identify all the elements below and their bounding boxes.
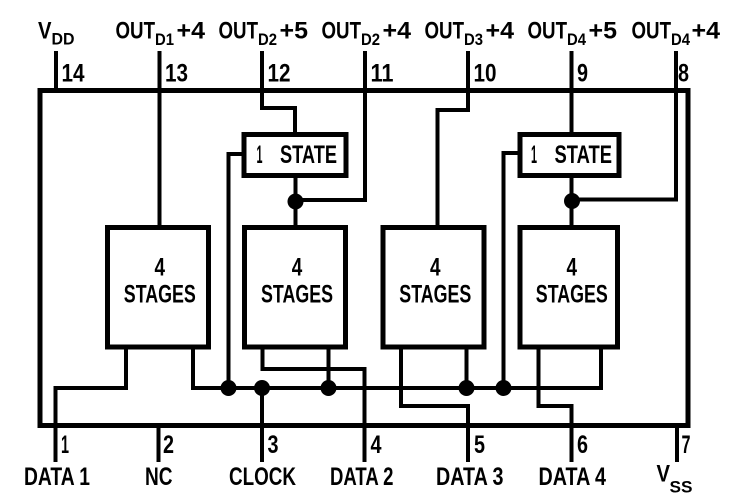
wire pin 7 VSS stub	[675, 425, 679, 462]
node A junction dot	[288, 194, 304, 210]
svg-text:+4: +4	[486, 18, 515, 45]
junction dot clock rail / state2 input	[496, 380, 512, 396]
svg-text:DATA 2: DATA 2	[330, 463, 394, 491]
svg-text:3: 3	[268, 431, 279, 459]
svg-text:7: 7	[682, 431, 691, 459]
label VDD	[38, 18, 75, 49]
svg-text:4: 4	[371, 431, 382, 459]
svg-text:D2: D2	[361, 30, 380, 49]
wire 1 STATE box 1 output to 4 STAGES box 2	[294, 176, 298, 228]
wire box 3 clock pin	[465, 347, 469, 388]
svg-text:CLOCK: CLOCK	[229, 463, 296, 491]
wire pin 9 OUTD4+5 to 1 STATE box 2	[570, 51, 574, 136]
junction dot clock rail / pin 3	[254, 380, 270, 396]
block B3: 4 STAGES box 3	[383, 228, 484, 348]
wire pin 10 OUTD3+4 jog to 4 STAGES box 3	[438, 51, 469, 228]
junction dot clock rail / box 2	[321, 380, 337, 396]
svg-text:11: 11	[371, 60, 394, 88]
wire pin 11 OUTD2+4 to node A	[296, 51, 366, 200]
svg-text:1: 1	[531, 141, 537, 169]
svg-text:DATA 4: DATA 4	[539, 463, 607, 491]
label OUT D2 +5	[219, 18, 309, 50]
junction dot clock rail / state1 input	[221, 380, 237, 396]
block B4: 4 STAGES box 4	[520, 228, 618, 348]
svg-text:+4: +4	[177, 18, 206, 45]
svg-text:OUT: OUT	[116, 18, 156, 45]
svg-text:8: 8	[678, 60, 689, 88]
svg-text:5: 5	[474, 431, 485, 459]
svg-text:10: 10	[474, 60, 497, 88]
svg-text:+4: +4	[383, 18, 412, 45]
label OUT D2 +4	[322, 18, 412, 50]
svg-text:STATE: STATE	[555, 141, 613, 169]
svg-text:OUT: OUT	[632, 18, 672, 45]
wire pin 3 CLOCK stub	[260, 388, 264, 462]
svg-text:OUT: OUT	[322, 18, 362, 45]
wire pin 8 OUTD4+4 to node B	[572, 51, 676, 200]
svg-text:STAGES: STAGES	[261, 281, 333, 309]
svg-text:DD: DD	[52, 30, 75, 49]
svg-text:D3: D3	[464, 30, 483, 49]
svg-text:6: 6	[577, 431, 588, 459]
svg-text:4: 4	[567, 254, 578, 282]
svg-text:STAGES: STAGES	[124, 281, 196, 309]
op box U2: 1 STATE box 2	[520, 135, 619, 176]
svg-text:4: 4	[155, 254, 166, 282]
wire clock rail from box1 clock pin to box4 clock pin	[193, 347, 601, 388]
svg-text:SS: SS	[670, 478, 693, 497]
svg-text:DATA 3: DATA 3	[436, 463, 504, 491]
svg-text:+5: +5	[589, 18, 618, 45]
label OUT D4 +5	[528, 18, 618, 50]
svg-text:NC: NC	[145, 463, 173, 491]
svg-text:STAGES: STAGES	[536, 281, 608, 309]
svg-text:D2: D2	[258, 30, 277, 49]
svg-text:1: 1	[257, 141, 263, 169]
wire box 2 data input to pin 4 DATA 2	[263, 347, 365, 462]
svg-text:D4: D4	[567, 30, 586, 49]
svg-text:STAGES: STAGES	[399, 281, 471, 309]
svg-text:12: 12	[268, 60, 291, 88]
wire box 1 data input to pin 1 DATA 1	[56, 347, 127, 462]
junction dot clock rail / box 3	[459, 380, 475, 396]
svg-text:4: 4	[292, 254, 303, 282]
svg-text:D4: D4	[671, 30, 690, 49]
wire 1 STATE box 1 left input to clock rail	[229, 154, 246, 388]
wire 1 STATE box 2 left input to clock rail	[504, 153, 521, 388]
label OUT D3 +4	[425, 18, 515, 50]
svg-text:V: V	[657, 461, 671, 488]
wire box 3 data input to pin 5 DATA 3	[401, 347, 468, 462]
wire box 4 data input to pin 6 DATA 4	[539, 347, 572, 462]
node B junction dot	[564, 193, 580, 209]
svg-text:1: 1	[61, 431, 69, 459]
svg-text:14: 14	[62, 60, 85, 88]
svg-text:+4: +4	[692, 18, 721, 45]
wire pin 14 VDD stub	[54, 51, 58, 93]
label VSS	[657, 461, 693, 497]
svg-text:OUT: OUT	[425, 18, 465, 45]
svg-text:DATA 1: DATA 1	[24, 463, 90, 491]
svg-text:OUT: OUT	[528, 18, 568, 45]
svg-text:9: 9	[577, 60, 588, 88]
svg-text:STATE: STATE	[280, 141, 337, 169]
svg-text:13: 13	[165, 60, 188, 88]
wire pin 2 NC stub	[157, 425, 161, 462]
wire pin 13 OUTD1+4 to 4 STAGES box 1	[158, 51, 162, 228]
svg-text:V: V	[38, 18, 52, 45]
block B1: 4 STAGES box 1	[108, 228, 209, 348]
wire 1 STATE box 2 output to 4 STAGES box 4	[570, 176, 574, 228]
wire pin 12 OUTD2+5 jog to 1 STATE box 1	[262, 51, 295, 136]
label OUT D1 +4	[116, 18, 206, 50]
block B2: 4 STAGES box 2	[245, 228, 346, 348]
op box U1: 1 STATE box 1	[244, 135, 346, 176]
svg-text:D1: D1	[155, 30, 174, 49]
svg-text:OUT: OUT	[219, 18, 259, 45]
IC package outline	[40, 91, 688, 426]
svg-text:+5: +5	[280, 18, 309, 45]
svg-text:2: 2	[163, 431, 174, 459]
wire box 2 clock pin	[327, 347, 331, 388]
label OUT D4 +4	[632, 18, 721, 50]
svg-text:4: 4	[430, 254, 441, 282]
